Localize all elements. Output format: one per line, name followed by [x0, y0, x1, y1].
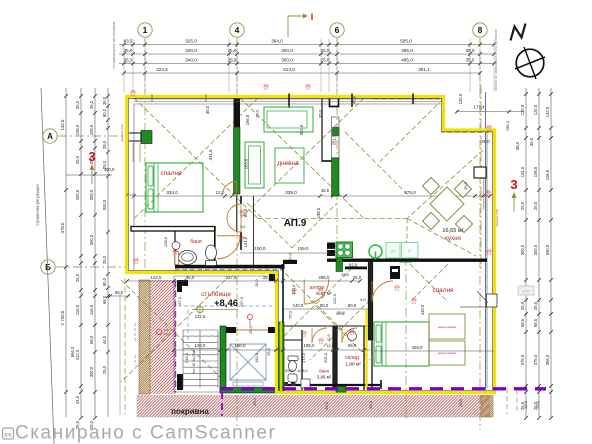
dimension row bottom strip labels: [108, 279, 540, 410]
grid bubble 4: [230, 23, 244, 37]
wall living kitchen middle outline: [332, 117, 340, 158]
top dimension texts row2: [124, 48, 475, 53]
svg-text:327,5: 327,5: [226, 275, 238, 280]
svg-text:линия на максимално застрояван: линия на максимално застрояване: [494, 29, 498, 91]
svg-text:221: 221: [319, 341, 324, 345]
stair side rails: [183, 330, 218, 388]
door arc bedroom1: [222, 182, 237, 197]
stamp small right: [518, 286, 534, 295]
svg-text:80,0: 80,0: [348, 303, 357, 308]
svg-text:142,5: 142,5: [545, 106, 550, 117]
yellow wall segment at storage: [365, 309, 367, 389]
side regulation boundary line: [35, 88, 54, 444]
bath2 storage walls: [283, 326, 381, 390]
grid axis B line: [56, 266, 128, 268]
svg-text:35,0: 35,0: [466, 48, 475, 53]
svg-text:222,0: 222,0: [332, 293, 337, 304]
cabinet bath1: [175, 252, 179, 265]
svg-text:197,0: 197,0: [177, 296, 182, 307]
svg-text:75,0: 75,0: [288, 310, 293, 319]
corridor dashed blue line: [175, 269, 283, 271]
level marker staircase: [192, 305, 238, 315]
svg-text:12,0: 12,0: [327, 334, 331, 341]
svg-text:нощно шкафче: нощно шкафче: [438, 325, 457, 329]
svg-text:25,0: 25,0: [458, 398, 463, 407]
nightstand bottom: [429, 341, 465, 365]
grid axis 8 line: [479, 38, 481, 430]
svg-text:323,5: 323,5: [156, 67, 168, 72]
svg-text:195,0: 195,0: [304, 343, 316, 348]
wall between bedroom1 and living black part: [234, 96, 241, 127]
grid axis 4 line: [236, 38, 238, 430]
svg-text:325,0: 325,0: [185, 39, 197, 44]
svg-text:106,5: 106,5: [545, 169, 550, 180]
sink bath2: [288, 374, 297, 382]
purple boundary dashed vertical: [221, 392, 223, 416]
red marker staircase door: [247, 314, 252, 326]
svg-text:4,0: 4,0: [360, 297, 366, 302]
top dimension texts row4: [156, 67, 430, 72]
svg-text:300,0: 300,0: [533, 244, 538, 255]
right dimension texts column 1: [520, 104, 525, 410]
wall above entry door: [283, 260, 297, 264]
stove with burners: [336, 242, 353, 258]
svg-text:3,96 м²: 3,96 м²: [317, 375, 332, 380]
svg-text:+8,46: +8,46: [214, 298, 238, 309]
right dimension ticks: [524, 92, 553, 420]
door arc bath2: [312, 328, 327, 343]
grid axis 1 line: [144, 38, 146, 272]
svg-text:9ст. 16,5в/29ш: 9ст. 16,5в/29ш: [192, 350, 196, 374]
svg-text:120,0: 120,0: [533, 104, 538, 115]
svg-text:6: 6: [335, 25, 340, 35]
svg-text:80,0: 80,0: [102, 108, 107, 117]
roof guide dashes bottom right: [507, 388, 517, 414]
svg-text:8,0: 8,0: [302, 369, 307, 373]
label staircase: [201, 290, 238, 309]
svg-text:221: 221: [350, 332, 355, 336]
svg-text:221: 221: [134, 261, 139, 265]
svg-text:25,0: 25,0: [321, 48, 330, 53]
svg-text:35,0: 35,0: [205, 105, 210, 114]
svg-text:25,0: 25,0: [75, 155, 80, 164]
svg-text:1: 1: [143, 25, 148, 35]
svg-text:25,0: 25,0: [520, 301, 525, 310]
svg-text:301,1: 301,1: [418, 67, 430, 72]
dimension verticals staircase: [177, 296, 271, 363]
wall living kitchen green part: [332, 158, 340, 196]
sofa living room: [264, 107, 313, 132]
svg-text:221: 221: [395, 288, 400, 292]
svg-text:25,0: 25,0: [368, 400, 373, 409]
svg-text:дневна: дневна: [277, 160, 299, 167]
svg-text:25,0: 25,0: [102, 365, 107, 374]
svg-text:198,0: 198,0: [316, 207, 321, 218]
svg-text:122,5: 122,5: [195, 314, 206, 319]
svg-text:Б: Б: [45, 263, 51, 272]
svg-text:35,0: 35,0: [89, 100, 94, 109]
left dimension texts column 1: [60, 119, 75, 357]
right dimension texts column 2: [533, 104, 538, 410]
right small dims 35 38: [515, 137, 534, 150]
svg-text:43,5: 43,5: [124, 39, 133, 44]
roof ridge and hip dashed lines: [121, 98, 489, 382]
svg-text:1717: 1717: [522, 290, 530, 294]
svg-text:6,47 м²: 6,47 м²: [316, 291, 332, 297]
svg-text:35,0: 35,0: [529, 137, 534, 146]
svg-text:116,5: 116,5: [89, 304, 94, 315]
svg-text:300,0: 300,0: [89, 189, 94, 200]
svg-text:150,0: 150,0: [254, 352, 259, 363]
svg-text:120,0: 120,0: [520, 104, 525, 115]
svg-text:431,5: 431,5: [208, 149, 213, 161]
grid bubble 8: [473, 23, 487, 37]
label hall: [310, 285, 333, 297]
svg-text:35,0: 35,0: [255, 109, 260, 118]
svg-text:А: А: [47, 132, 53, 141]
svg-text:116,5: 116,5: [75, 304, 80, 315]
svg-text:475,0: 475,0: [404, 190, 416, 195]
svg-text:375,0: 375,0: [520, 354, 525, 365]
svg-text:Сканирано с CamScanner: Сканирано с CamScanner: [15, 423, 276, 444]
fridge F: [402, 243, 419, 259]
red marker roof left: [156, 328, 169, 336]
svg-text:300,0: 300,0: [281, 48, 293, 53]
window glazing band top wall: [134, 99, 439, 102]
svg-text:48,5: 48,5: [321, 188, 330, 193]
grid bubble 6: [330, 23, 344, 37]
toilet bath2: [288, 356, 298, 372]
svg-text:120,0: 120,0: [195, 343, 207, 348]
wall stub below wardrobe: [236, 194, 238, 232]
corridor top wall thick: [175, 265, 283, 269]
svg-text:495,0: 495,0: [401, 48, 413, 53]
window mullions top wall: [289, 94, 413, 109]
svg-text:16,65 м²: 16,65 м²: [442, 228, 463, 234]
building limit dashdot right: [480, 85, 482, 270]
svg-text:12,0: 12,0: [216, 190, 225, 195]
svg-text:106,5: 106,5: [89, 124, 94, 135]
svg-text:3 1,0: 3 1,0: [126, 193, 134, 197]
svg-text:106,5: 106,5: [533, 166, 538, 177]
svg-text:спалня: спалня: [433, 287, 454, 294]
left dimension ticks: [64, 94, 110, 420]
bedroom2 dimensions: [374, 268, 494, 351]
svg-text:25,0: 25,0: [520, 201, 525, 210]
door arc hall to bedroom2: [372, 281, 393, 302]
door arc storage: [342, 328, 357, 343]
left dimension texts column 3: [89, 100, 94, 429]
svg-text:47,0: 47,0: [289, 253, 293, 260]
label storage: [345, 355, 361, 368]
svg-text:334,0: 334,0: [166, 190, 178, 195]
elevator door line: [236, 329, 268, 331]
svg-text:25,0: 25,0: [102, 255, 107, 264]
svg-text:221: 221: [306, 87, 311, 91]
svg-text:403,0: 403,0: [412, 345, 424, 350]
svg-text:550,0: 550,0: [545, 244, 550, 255]
washer bath2: [301, 379, 310, 388]
compass north symbol: [511, 24, 546, 80]
green wall under storage: [336, 386, 346, 392]
landing dashed lines: [184, 306, 276, 342]
svg-text:140,0: 140,0: [293, 303, 304, 308]
svg-text:странична регулация: странична регулация: [35, 184, 40, 225]
svg-text:300,0: 300,0: [89, 234, 94, 245]
left dimension texts column 4: [102, 96, 107, 374]
kitchen area right dims: [455, 93, 524, 190]
top dimension extension lines: [124, 39, 494, 92]
yellow-green wall at elevator right: [280, 322, 282, 392]
svg-text:365,0: 365,0: [545, 354, 550, 365]
svg-text:300,0: 300,0: [75, 189, 80, 200]
svg-text:142,5: 142,5: [60, 119, 65, 131]
svg-text:35,0: 35,0: [124, 48, 133, 53]
grid axis through bedroom2: [405, 240, 407, 420]
svg-text:25,0: 25,0: [75, 273, 80, 282]
svg-text:25,0: 25,0: [267, 348, 271, 355]
svg-text:26,0: 26,0: [255, 279, 259, 286]
svg-text:364,0: 364,0: [271, 39, 283, 44]
svg-text:25,0: 25,0: [353, 275, 362, 280]
svg-text:5,0: 5,0: [241, 225, 246, 229]
svg-text:128,0: 128,0: [163, 236, 168, 247]
svg-text:1,80 м²: 1,80 м²: [345, 362, 361, 368]
svg-text:159,0: 159,0: [298, 246, 310, 251]
yellow inner black contour: [128, 98, 492, 390]
purple boundary dashed horizontal: [220, 387, 546, 390]
svg-text:45,0: 45,0: [481, 139, 490, 144]
svg-text:80,0: 80,0: [320, 303, 329, 308]
svg-text:68,0: 68,0: [102, 295, 107, 304]
svg-text:68,0: 68,0: [89, 335, 94, 344]
wall between bedroom1 and living green part: [234, 127, 241, 194]
svg-text:505,0: 505,0: [400, 39, 412, 44]
svg-text:25,0: 25,0: [263, 275, 272, 280]
svg-text:300,0: 300,0: [520, 244, 525, 255]
svg-text:35,0: 35,0: [318, 109, 323, 118]
window frame ticks top wall: [152, 94, 206, 102]
svg-text:221: 221: [412, 301, 417, 305]
svg-text:покривна: покривна: [171, 407, 209, 416]
svg-text:221: 221: [264, 87, 269, 91]
bath2 storage dimensions: [301, 310, 346, 373]
top dimension texts row3: [124, 58, 475, 63]
svg-text:антре: антре: [310, 285, 325, 291]
svg-text:cs: cs: [4, 431, 12, 438]
interior vertical dims left rooms: [126, 95, 357, 260]
roof section band left: [25, 280, 264, 394]
washing machine W: [386, 243, 400, 259]
svg-text:180,0: 180,0: [235, 343, 247, 348]
svg-text:106,5: 106,5: [75, 124, 80, 135]
svg-text:82,0: 82,0: [349, 263, 358, 268]
kitchen small dimensions: [341, 263, 358, 280]
svg-text:203,0: 203,0: [323, 352, 328, 363]
purple dashed at staircase left wall: [175, 281, 177, 392]
svg-text:433,5: 433,5: [420, 304, 425, 315]
svg-text:25,0: 25,0: [341, 272, 350, 277]
svg-text:173,0: 173,0: [301, 352, 306, 363]
dimension row below corridor: [125, 275, 362, 283]
svg-text:22,0: 22,0: [337, 310, 346, 315]
svg-text:25,0: 25,0: [321, 58, 330, 63]
svg-text:215,0: 215,0: [184, 352, 189, 363]
svg-text:221: 221: [486, 193, 491, 197]
svg-text:339,0: 339,0: [285, 190, 297, 195]
svg-text:25,0: 25,0: [228, 48, 237, 53]
section mark 3 left: [66, 149, 115, 184]
elevator shaft green walls: [220, 322, 284, 393]
table living room: [275, 148, 304, 183]
svg-text:221: 221: [302, 334, 307, 338]
svg-text:150,0: 150,0: [255, 246, 267, 251]
camscanner badge: [3, 428, 14, 439]
svg-text:35,0: 35,0: [75, 100, 80, 109]
svg-text:8: 8: [478, 25, 483, 35]
grid axis A line: [58, 135, 128, 137]
grid bubble B: [41, 260, 55, 274]
svg-text:стълбище: стълбище: [201, 290, 231, 298]
door frame bedroom1 entry: [133, 143, 140, 162]
svg-text:35,0: 35,0: [466, 58, 475, 63]
svg-text:340,0: 340,0: [185, 48, 197, 53]
svg-text:251,5: 251,5: [332, 134, 337, 145]
interior horizontal dimension chain: [132, 188, 492, 198]
svg-text:177,4: 177,4: [474, 105, 486, 110]
kitchen counter wall: [327, 259, 487, 270]
svg-text:221: 221: [240, 239, 245, 243]
svg-text:80,0: 80,0: [102, 277, 107, 286]
bed bedroom1: [146, 163, 203, 212]
svg-text:221: 221: [487, 252, 492, 256]
bath1 right wall: [175, 196, 254, 268]
kitchen sink circle: [369, 245, 382, 260]
svg-text:120,0: 120,0: [458, 93, 463, 104]
svg-text:I: I: [311, 12, 314, 22]
left dimension texts column 2: [75, 100, 80, 429]
right vertical dimension lines: [526, 88, 551, 417]
svg-text:25,0: 25,0: [533, 201, 538, 210]
svg-text:375,0: 375,0: [533, 354, 538, 365]
svg-text:25,0: 25,0: [533, 301, 538, 310]
svg-text:44,0: 44,0: [102, 335, 107, 344]
svg-text:25,0: 25,0: [228, 58, 237, 63]
svg-text:613,0: 613,0: [283, 67, 295, 72]
door arc entry to hall: [304, 280, 329, 305]
svg-text:баня: баня: [190, 239, 202, 245]
window shaft kitchen right: [474, 167, 486, 178]
small appliances bath2: [284, 382, 296, 386]
sink bath1: [179, 251, 197, 265]
section mark 3 right: [510, 177, 517, 212]
svg-text:35,0: 35,0: [186, 275, 195, 280]
svg-text:25,0: 25,0: [324, 401, 329, 410]
svg-text:131,5: 131,5: [520, 166, 525, 177]
hall left wall: [282, 264, 284, 340]
svg-text:300,0: 300,0: [102, 199, 107, 210]
kitchen green cabinet: [336, 258, 343, 272]
svg-text:163,5: 163,5: [244, 158, 249, 169]
toilet bath1: [206, 245, 217, 266]
svg-text:58,5: 58,5: [533, 318, 538, 327]
svg-text:25,0: 25,0: [535, 400, 540, 409]
svg-text:спалня: спалня: [161, 170, 182, 177]
svg-text:парапет h-90: парапет h-90: [495, 209, 499, 227]
section mark I top: [288, 12, 313, 37]
svg-text:221: 221: [292, 291, 297, 295]
dimension row staircase: [172, 343, 370, 352]
left vertical dimension lines: [66, 88, 108, 417]
svg-text:300,0: 300,0: [281, 58, 293, 63]
svg-text:44,0: 44,0: [75, 395, 80, 404]
grid axis 6 line: [336, 38, 338, 262]
svg-text:АП.9: АП.9: [284, 218, 307, 229]
svg-text:412,0: 412,0: [75, 349, 80, 360]
svg-text:45,0: 45,0: [352, 95, 357, 104]
svg-text:300,0: 300,0: [89, 366, 94, 377]
svg-text:3: 3: [88, 149, 95, 164]
svg-text:300,0: 300,0: [104, 167, 116, 172]
wall living kitchen column: [330, 97, 339, 107]
svg-text:478,0: 478,0: [60, 222, 65, 234]
svg-text:нощно шкафче: нощно шкафче: [438, 351, 457, 355]
svg-text:340,0: 340,0: [185, 58, 197, 63]
inner wall face lines top: [134, 104, 487, 388]
svg-text:35,0: 35,0: [464, 182, 468, 189]
window corner bedroom2 right: [477, 291, 497, 307]
stair steps: [183, 330, 218, 386]
kitchen left appliance block: [327, 243, 335, 257]
svg-text:197,0: 197,0: [239, 296, 244, 307]
roof section band bottom right: [460, 396, 517, 418]
svg-text:56,0: 56,0: [115, 290, 124, 295]
svg-text:26,0: 26,0: [252, 397, 257, 406]
svg-text:3: 3: [510, 177, 517, 192]
svg-text:28,0: 28,0: [102, 140, 107, 149]
living room partition line: [322, 96, 339, 162]
grid bubble 1: [138, 23, 152, 37]
label kitchen area: [442, 228, 463, 242]
top dimension ticks: [122, 43, 496, 75]
svg-text:221: 221: [240, 213, 245, 217]
wall living kitchen green upper: [333, 128, 340, 136]
svg-text:122,5: 122,5: [151, 275, 163, 280]
svg-text:495,0: 495,0: [401, 58, 413, 63]
svg-text:4: 4: [235, 25, 240, 35]
hall bedroom2 wall: [368, 261, 372, 340]
svg-text:296,0: 296,0: [319, 275, 331, 280]
staircase outer walls: [174, 276, 276, 392]
top dimension texts row1: [124, 39, 413, 44]
bedroom2 bottom right walls: [372, 307, 487, 390]
svg-text:F: F: [408, 250, 412, 256]
svg-text:58,5: 58,5: [520, 318, 525, 327]
svg-text:38,0: 38,0: [515, 141, 520, 150]
svg-text:35,0: 35,0: [102, 96, 107, 105]
bedroom1 bottom wall: [131, 227, 215, 232]
hall niche shelf: [399, 261, 412, 263]
kitchen pillar: [390, 266, 400, 279]
svg-text:парапет h-90: парапет h-90: [120, 124, 124, 142]
svg-text:баня: баня: [319, 369, 330, 374]
svg-text:59,0: 59,0: [348, 343, 357, 348]
exterior wall yellow outline: [125, 97, 495, 393]
boiler storage: [348, 332, 357, 341]
svg-text:221: 221: [131, 93, 136, 97]
roof hatch area left of staircase: [36, 280, 291, 394]
radiator bedroom1: [129, 131, 152, 144]
